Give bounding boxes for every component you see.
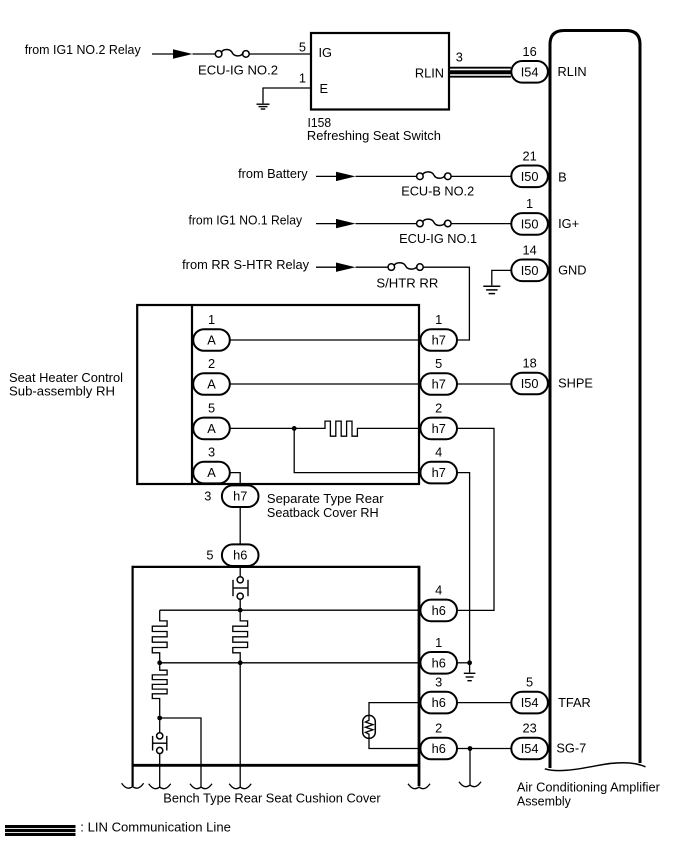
arrow from IG1 NO.2 Relay — [173, 49, 193, 58]
svg-text:SHPE: SHPE — [558, 376, 593, 391]
svg-text:RLIN: RLIN — [415, 65, 444, 80]
connector h6 pin 3 — [420, 692, 457, 714]
svg-text:ECU-IG NO.2: ECU-IG NO.2 — [198, 63, 278, 78]
connector I54 pin 5 — [511, 692, 548, 714]
switch S1 (seat cushion) — [233, 577, 248, 600]
svg-text:16: 16 — [522, 44, 536, 59]
svg-text:14: 14 — [522, 242, 536, 257]
svg-text:RLIN: RLIN — [558, 64, 587, 79]
LIN communication line — [449, 68, 511, 77]
wire upper rail — [160, 609, 420, 611]
wire — [469, 663, 471, 673]
wire lower rail — [160, 662, 420, 664]
svg-text:IG: IG — [319, 45, 333, 60]
wire — [239, 599, 241, 610]
wire — [356, 266, 389, 268]
connector A pin 3 — [193, 462, 230, 484]
fuse ECU-IG NO.2 — [215, 49, 249, 57]
svg-text:3: 3 — [204, 489, 211, 504]
connector I50 pin 1 — [511, 213, 548, 235]
wire — [458, 383, 511, 385]
svg-text:I50: I50 — [521, 263, 539, 278]
wire — [230, 473, 240, 488]
connector h7 pin 4 — [420, 462, 457, 484]
svg-text:GND: GND — [558, 262, 586, 277]
wire — [239, 567, 241, 577]
connector I50 pin 21 — [511, 166, 548, 188]
svg-text:S/HTR RR: S/HTR RR — [376, 275, 438, 290]
node junction — [468, 746, 473, 751]
svg-text:18: 18 — [522, 356, 536, 371]
svg-text:ECU-IG NO.1: ECU-IG NO.1 — [399, 231, 477, 246]
svg-text:h6: h6 — [432, 655, 446, 670]
svg-text:A: A — [207, 465, 216, 480]
svg-text:I54: I54 — [521, 741, 539, 756]
pigtail — [459, 782, 481, 787]
ECU box Air Conditioning Amplifier Assembly — [550, 31, 640, 769]
svg-text:Separate Type Rear: Separate Type Rear — [267, 491, 384, 506]
wire — [263, 88, 311, 103]
svg-text:ECU-B NO.2: ECU-B NO.2 — [401, 183, 474, 198]
ground — [483, 286, 500, 293]
wire — [239, 663, 241, 787]
svg-text:1: 1 — [299, 71, 306, 86]
wire — [193, 53, 216, 55]
svg-text:h6: h6 — [432, 695, 446, 710]
heater element M2 — [233, 613, 248, 661]
fuse ECU-B NO.2 — [417, 172, 452, 180]
wire — [469, 749, 471, 785]
component box Seat Heater Control Sub-assembly RH — [137, 305, 419, 484]
svg-text:Refreshing Seat Switch: Refreshing Seat Switch — [307, 128, 441, 143]
thermistor (seat cushion sensor) — [363, 715, 376, 738]
wire — [356, 223, 417, 225]
wire — [458, 662, 470, 664]
node junction — [292, 426, 297, 431]
svg-text:IG+: IG+ — [558, 216, 579, 231]
connector h6 pin 1 — [420, 652, 457, 674]
wire — [230, 383, 419, 385]
svg-text:h7: h7 — [432, 421, 446, 436]
svg-text:5: 5 — [526, 675, 533, 690]
wire — [152, 53, 173, 55]
svg-text:2: 2 — [208, 356, 215, 371]
LIN communication line legend symbol — [5, 827, 76, 835]
svg-text:4: 4 — [435, 582, 442, 597]
svg-text:I50: I50 — [521, 169, 539, 184]
svg-text:TFAR: TFAR — [558, 695, 591, 710]
svg-text:5: 5 — [206, 547, 213, 562]
wire — [458, 702, 511, 704]
pigtail — [229, 784, 251, 789]
wire — [160, 718, 201, 787]
wire — [316, 223, 336, 225]
inner edge line — [191, 305, 193, 484]
svg-text:E: E — [320, 81, 329, 96]
pigtail — [190, 784, 212, 789]
connector A pin 2 — [193, 373, 230, 395]
svg-text:I50: I50 — [521, 216, 539, 231]
connector h7 pin 2 — [420, 418, 457, 440]
svg-text:B: B — [558, 169, 567, 184]
svg-text:5: 5 — [299, 40, 306, 55]
svg-text:I54: I54 — [521, 695, 539, 710]
connector h6 pin 4 — [420, 600, 457, 622]
svg-text:Bench Type Rear Seat Cushion C: Bench Type Rear Seat Cushion Cover — [163, 791, 381, 806]
wire — [458, 748, 511, 750]
svg-text:SG-7: SG-7 — [556, 741, 586, 756]
svg-text:A: A — [207, 377, 216, 392]
wire — [369, 738, 420, 748]
svg-text:3: 3 — [435, 675, 442, 690]
wire — [159, 720, 161, 733]
svg-text:I54: I54 — [521, 64, 539, 79]
svg-text:2: 2 — [435, 721, 442, 736]
ECU box torn bottom edge — [545, 763, 646, 771]
wire — [458, 428, 494, 610]
heater element M1 — [152, 610, 167, 660]
connector A pin 5 — [193, 418, 230, 440]
svg-text:Seatback Cover RH: Seatback Cover RH — [267, 505, 379, 520]
svg-text:from RR S-HTR Relay: from RR S-HTR Relay — [182, 257, 310, 272]
wire — [316, 266, 336, 268]
connector h7 pin 5 — [420, 373, 457, 395]
svg-text:1: 1 — [435, 312, 442, 327]
component box Bench Type Rear Seat Cushion Cover — [133, 566, 419, 786]
wire — [492, 270, 511, 285]
pigtail — [408, 784, 430, 789]
connector h7 pin 1 — [420, 329, 457, 351]
wire — [369, 703, 420, 716]
svg-text:1: 1 — [526, 196, 533, 211]
svg-text:1: 1 — [208, 312, 215, 327]
svg-text:from IG1 NO.1 Relay: from IG1 NO.1 Relay — [189, 213, 303, 228]
wire — [451, 175, 511, 177]
svg-text:h6: h6 — [432, 603, 446, 618]
connector I50 pin 14 — [511, 260, 548, 282]
svg-text:4: 4 — [435, 445, 442, 460]
wire — [159, 754, 161, 787]
connector h7 pin 3 — [222, 485, 259, 507]
wire — [316, 175, 336, 177]
svg-text:1: 1 — [435, 635, 442, 650]
svg-text:A: A — [207, 421, 216, 436]
wire — [239, 507, 241, 544]
svg-text:from Battery: from Battery — [238, 166, 308, 181]
node junction — [467, 660, 472, 665]
node junction — [157, 716, 162, 721]
svg-text:2: 2 — [435, 400, 442, 415]
svg-text:23: 23 — [522, 721, 536, 736]
svg-text:: LIN Communication Line: : LIN Communication Line — [80, 820, 231, 835]
arrow from Battery — [336, 172, 356, 181]
svg-text:h6: h6 — [432, 741, 446, 756]
svg-text:Sub-assembly RH: Sub-assembly RH — [9, 383, 115, 398]
node junction — [157, 660, 162, 665]
svg-text:from IG1 NO.2 Relay: from IG1 NO.2 Relay — [25, 42, 142, 57]
heater element M3 — [152, 665, 167, 716]
switch box I158 — [311, 33, 449, 110]
node junction — [238, 660, 243, 665]
wire — [458, 473, 470, 663]
svg-text:Assembly: Assembly — [517, 793, 572, 808]
svg-text:h7: h7 — [432, 465, 446, 480]
fuse ECU-IG NO.1 — [417, 219, 452, 227]
svg-text:I50: I50 — [521, 376, 539, 391]
wire — [423, 267, 469, 340]
node junction — [238, 608, 243, 613]
svg-text:5: 5 — [208, 400, 215, 415]
wire — [451, 223, 511, 225]
connector I54 pin 23 — [511, 738, 548, 760]
ground — [464, 673, 476, 680]
pigtail — [149, 784, 171, 789]
svg-text:h7: h7 — [432, 377, 446, 392]
svg-text:21: 21 — [522, 148, 536, 163]
arrow from IG1 NO.1 Relay — [336, 219, 356, 228]
svg-text:3: 3 — [208, 445, 215, 460]
connector A pin 1 — [193, 329, 230, 351]
fuse S/HTR RR — [388, 263, 423, 271]
svg-text:5: 5 — [435, 356, 442, 371]
wire — [356, 175, 417, 177]
svg-text:A: A — [207, 333, 216, 348]
arrow from RR S-HTR Relay — [336, 263, 356, 272]
ground — [257, 104, 270, 109]
connector I50 pin 18 — [511, 373, 548, 395]
heater element (seatback) and wire — [230, 421, 419, 436]
svg-text:3: 3 — [456, 50, 463, 65]
svg-text:h6: h6 — [233, 548, 247, 563]
connector I54 pin 16 — [511, 61, 548, 83]
wire — [230, 339, 419, 341]
pigtail — [122, 783, 144, 788]
svg-text:h7: h7 — [432, 333, 446, 348]
wire — [294, 428, 420, 472]
wire — [249, 53, 311, 55]
connector h6 pin 2 — [420, 738, 457, 760]
svg-text:h7: h7 — [233, 489, 247, 504]
component box bottom and right edge — [132, 566, 421, 786]
connector h6 pin 5 — [222, 544, 259, 566]
switch S2 (seat cushion) — [153, 733, 167, 754]
